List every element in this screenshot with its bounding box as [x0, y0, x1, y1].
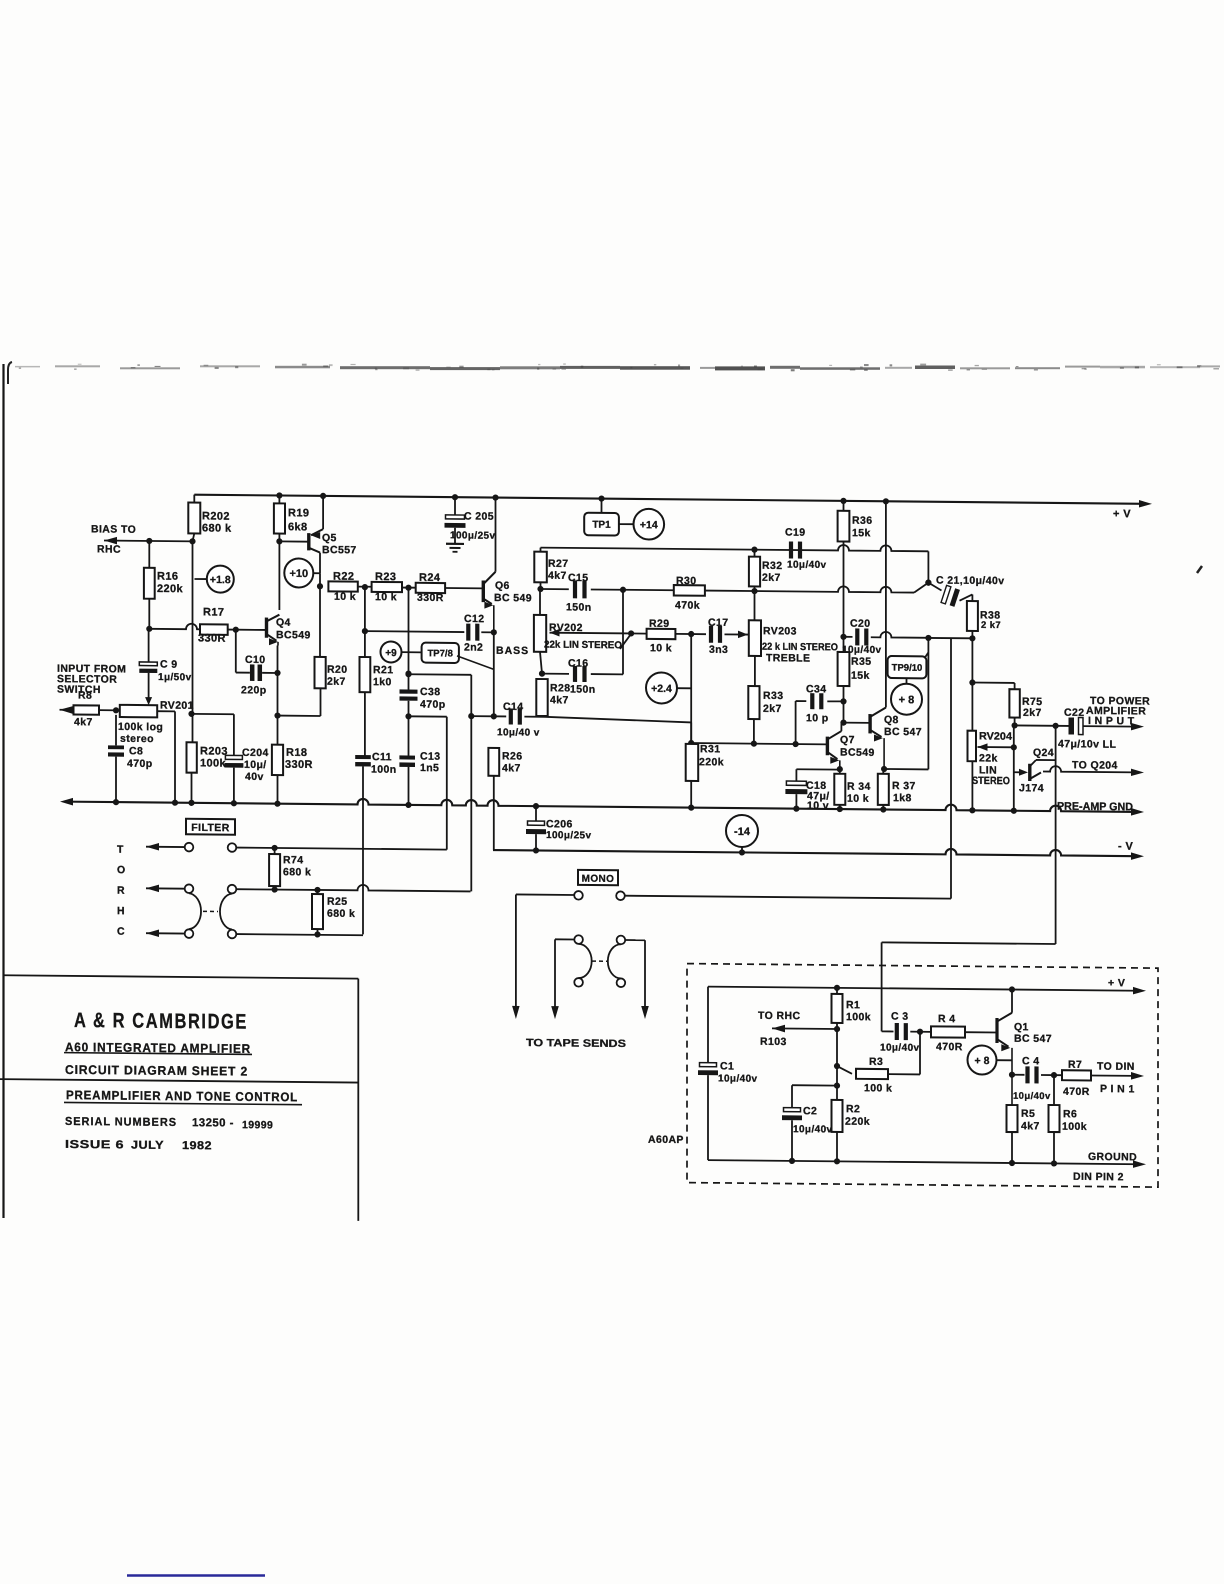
svg-text:C15: C15	[568, 572, 588, 584]
svg-text:+1.8: +1.8	[210, 574, 231, 586]
svg-text:TO RHC: TO RHC	[758, 1010, 800, 1022]
svg-text:100k: 100k	[200, 757, 227, 769]
svg-text:1k0: 1k0	[373, 676, 392, 688]
svg-text:330R: 330R	[198, 632, 226, 644]
svg-text:220p: 220p	[241, 684, 267, 696]
svg-text:C20: C20	[850, 618, 870, 630]
svg-text:C13: C13	[420, 751, 440, 763]
svg-text:100n: 100n	[371, 764, 397, 776]
svg-text:10μ/40v: 10μ/40v	[718, 1073, 758, 1084]
svg-text:100μ/25v: 100μ/25v	[546, 830, 592, 841]
svg-text:C16: C16	[568, 657, 588, 669]
svg-text:100k: 100k	[1062, 1121, 1087, 1133]
svg-text:T: T	[117, 844, 124, 856]
svg-text:+9: +9	[385, 648, 397, 659]
svg-text:CIRCUIT DIAGRAM SHEET 2: CIRCUIT DIAGRAM SHEET 2	[65, 1063, 248, 1079]
svg-text:22k: 22k	[979, 752, 998, 764]
svg-text:R22: R22	[333, 571, 354, 583]
svg-text:10 p: 10 p	[806, 712, 829, 724]
svg-text:R6: R6	[1063, 1108, 1077, 1120]
svg-text:MONO: MONO	[582, 874, 615, 885]
svg-text:RHC: RHC	[97, 543, 121, 555]
svg-text:10 k: 10 k	[650, 642, 672, 654]
svg-text:FILTER: FILTER	[191, 822, 229, 834]
svg-text:150n: 150n	[566, 601, 592, 613]
svg-text:R23: R23	[375, 571, 396, 583]
svg-text:10μ/40v: 10μ/40v	[793, 1124, 833, 1135]
svg-text:RV201: RV201	[160, 700, 194, 712]
svg-text:Q5: Q5	[322, 532, 337, 544]
svg-text:R27: R27	[548, 558, 568, 570]
svg-text:680 k: 680 k	[202, 522, 232, 534]
svg-text:BC549: BC549	[840, 747, 875, 759]
svg-text:22k LIN STEREO: 22k LIN STEREO	[544, 640, 622, 652]
svg-text:C 4: C 4	[1022, 1055, 1040, 1067]
svg-text:H: H	[117, 905, 125, 917]
svg-text:C: C	[117, 926, 125, 938]
svg-text:R33: R33	[763, 690, 783, 702]
svg-text:R28: R28	[550, 682, 570, 694]
svg-text:C34: C34	[806, 683, 826, 695]
svg-text:13250 -: 13250 -	[192, 1117, 234, 1129]
svg-text:- V: - V	[1118, 841, 1134, 853]
svg-text:2n2: 2n2	[464, 641, 483, 653]
svg-text:R: R	[117, 885, 125, 897]
svg-text:C 9: C 9	[160, 659, 178, 671]
svg-text:TP7/8: TP7/8	[428, 648, 453, 659]
svg-text:330R: 330R	[285, 759, 313, 771]
svg-text:P I N 1: P I N 1	[1100, 1083, 1135, 1095]
svg-text:100 k: 100 k	[864, 1082, 892, 1094]
svg-text:BC549: BC549	[276, 629, 311, 641]
svg-text:220k: 220k	[699, 756, 724, 768]
svg-text:STEREO: STEREO	[972, 775, 1010, 787]
svg-text:2k7: 2k7	[762, 572, 781, 584]
svg-text:100μ/25v: 100μ/25v	[450, 530, 496, 541]
svg-text:PREAMPLIFIER AND TONE CONTR: PREAMPLIFIER AND TONE CONTROL	[66, 1088, 298, 1104]
svg-text:R31: R31	[700, 743, 720, 755]
svg-text:+14: +14	[640, 519, 658, 531]
svg-text:C206: C206	[546, 818, 573, 830]
svg-text:TP9/10: TP9/10	[892, 663, 923, 674]
svg-text:BIAS TO: BIAS TO	[91, 523, 136, 535]
svg-text:C22: C22	[1064, 707, 1084, 719]
svg-text:A & R CAMBRIDGE: A & R CAMBRIDGE	[74, 1009, 248, 1034]
svg-text:Q4: Q4	[276, 617, 291, 629]
svg-text:1μ/50v: 1μ/50v	[158, 672, 192, 683]
svg-text:R3: R3	[869, 1056, 883, 1068]
svg-text:R29: R29	[649, 618, 669, 630]
svg-text:R19: R19	[288, 507, 309, 519]
svg-text:680 k: 680 k	[327, 908, 355, 920]
svg-text:TO DIN: TO DIN	[1097, 1061, 1135, 1073]
svg-text:R7: R7	[1068, 1059, 1082, 1071]
svg-text:R32: R32	[762, 560, 782, 572]
svg-text:+ V: + V	[1113, 508, 1131, 520]
svg-text:RV203: RV203	[763, 625, 797, 637]
svg-text:10μ/40 v: 10μ/40 v	[497, 727, 540, 738]
svg-text:C1: C1	[720, 1060, 734, 1072]
svg-text:R 37: R 37	[892, 780, 916, 792]
svg-text:C38: C38	[420, 686, 440, 698]
svg-text:40v: 40v	[245, 771, 264, 783]
svg-text:47μ/10v LL: 47μ/10v LL	[1058, 738, 1116, 751]
svg-text:O: O	[117, 864, 126, 876]
svg-text:2k7: 2k7	[1023, 707, 1042, 719]
svg-text:4k7: 4k7	[550, 694, 569, 706]
svg-text:R74: R74	[283, 854, 303, 866]
svg-text:10μ/40v: 10μ/40v	[787, 560, 827, 571]
svg-text:J174: J174	[1019, 782, 1044, 794]
svg-text:R 34: R 34	[847, 781, 871, 793]
svg-text:C 205: C 205	[464, 510, 494, 522]
svg-text:R30: R30	[676, 575, 696, 587]
svg-text:680 k: 680 k	[283, 866, 311, 878]
svg-text:100k log: 100k log	[118, 721, 163, 733]
svg-text:10μ/: 10μ/	[244, 759, 267, 771]
svg-text:10μ/40v: 10μ/40v	[842, 645, 882, 656]
svg-text:+ V: + V	[1108, 977, 1125, 989]
svg-text:+ 8: + 8	[975, 1055, 990, 1067]
svg-text:C14: C14	[503, 701, 523, 713]
svg-text:+ 8: + 8	[899, 694, 915, 706]
svg-text:2k7: 2k7	[763, 703, 782, 715]
svg-text:Q24: Q24	[1033, 747, 1054, 759]
svg-text:4k7: 4k7	[502, 762, 521, 774]
svg-text:R25: R25	[327, 896, 347, 908]
svg-text:C204: C204	[242, 747, 269, 759]
svg-text:1n5: 1n5	[420, 762, 439, 774]
svg-text:100k: 100k	[846, 1011, 871, 1023]
svg-text:10 v: 10 v	[807, 800, 829, 812]
svg-text:R16: R16	[157, 571, 178, 583]
svg-text:R18: R18	[286, 747, 307, 759]
svg-text:+2.4: +2.4	[651, 683, 672, 695]
svg-text:470R: 470R	[936, 1041, 963, 1053]
svg-text:Q6: Q6	[495, 580, 510, 592]
svg-text:470p: 470p	[127, 758, 153, 770]
svg-text:TREBLE: TREBLE	[766, 652, 810, 664]
svg-text:10 k: 10 k	[375, 591, 397, 603]
svg-text:BC 549: BC 549	[494, 592, 532, 604]
svg-text:R26: R26	[502, 750, 522, 762]
svg-text:C 21,10μ/40v: C 21,10μ/40v	[936, 574, 1004, 587]
svg-text:R1: R1	[846, 999, 860, 1011]
svg-text:1982: 1982	[182, 1140, 212, 1152]
svg-text:220k: 220k	[157, 583, 184, 595]
svg-text:470p: 470p	[420, 699, 446, 711]
svg-text:4k7: 4k7	[548, 570, 567, 582]
svg-text:TO TAPE SENDS: TO TAPE SENDS	[526, 1037, 626, 1050]
svg-text:2k7: 2k7	[327, 676, 346, 688]
svg-text:BC 547: BC 547	[1014, 1033, 1052, 1045]
svg-text:1k8: 1k8	[893, 792, 912, 804]
svg-text:C10: C10	[245, 654, 265, 666]
svg-text:R2: R2	[846, 1103, 860, 1115]
svg-text:R203: R203	[200, 745, 228, 757]
svg-text:TO Q204: TO Q204	[1072, 759, 1118, 771]
svg-text:BASS: BASS	[496, 645, 529, 657]
svg-text:470R: 470R	[1063, 1086, 1090, 1098]
svg-text:Q8: Q8	[884, 714, 899, 726]
svg-text:Q7: Q7	[840, 734, 855, 746]
svg-text:R24: R24	[419, 572, 441, 584]
svg-text:BC557: BC557	[322, 544, 357, 556]
svg-text:C11: C11	[372, 751, 392, 763]
svg-text:A60AP: A60AP	[648, 1134, 684, 1146]
svg-text:-14: -14	[734, 826, 751, 838]
svg-text:Q1: Q1	[1014, 1021, 1029, 1033]
svg-text:3n3: 3n3	[709, 644, 728, 656]
svg-text:R21: R21	[373, 664, 393, 676]
svg-text:GROUND: GROUND	[1088, 1151, 1137, 1163]
svg-text:15k: 15k	[852, 527, 871, 539]
svg-text:R5: R5	[1021, 1108, 1035, 1120]
svg-text:10μ/40v: 10μ/40v	[1013, 1091, 1051, 1102]
svg-text:+10: +10	[289, 568, 308, 580]
svg-text:C19: C19	[785, 527, 805, 539]
svg-text:ISSUE 6: ISSUE 6	[65, 1139, 124, 1152]
svg-text:I N P U T: I N P U T	[1088, 715, 1135, 727]
svg-text:JULY: JULY	[131, 1140, 164, 1152]
svg-text:C12: C12	[464, 613, 484, 625]
svg-text:RV204: RV204	[979, 730, 1012, 742]
svg-text:R20: R20	[327, 664, 347, 676]
svg-text:R103: R103	[760, 1036, 787, 1048]
svg-text:10μ/40v: 10μ/40v	[880, 1042, 920, 1053]
svg-text:4k7: 4k7	[74, 716, 93, 728]
svg-text:19999: 19999	[242, 1119, 273, 1131]
svg-text:SWITCH: SWITCH	[57, 684, 101, 696]
svg-text:R 4: R 4	[938, 1013, 956, 1025]
svg-text:R35: R35	[851, 656, 871, 668]
svg-text:C 3: C 3	[891, 1011, 909, 1023]
svg-text:220k: 220k	[845, 1116, 870, 1128]
svg-text:TP1: TP1	[592, 520, 611, 531]
svg-text:330R: 330R	[417, 592, 444, 604]
svg-text:SERIAL NUMBERS: SERIAL NUMBERS	[65, 1116, 177, 1129]
svg-text:15k: 15k	[851, 670, 870, 682]
svg-text:R36: R36	[852, 515, 872, 527]
svg-text:2 k7: 2 k7	[981, 620, 1001, 631]
svg-text:4k7: 4k7	[1021, 1120, 1040, 1132]
svg-text:C17: C17	[708, 617, 728, 629]
svg-text:DIN PIN 2: DIN PIN 2	[1073, 1171, 1124, 1183]
svg-text:R202: R202	[202, 510, 230, 522]
svg-text:stereo: stereo	[120, 733, 154, 745]
svg-text:BC 547: BC 547	[884, 726, 922, 738]
svg-text:R17: R17	[203, 606, 224, 618]
svg-text:470k: 470k	[675, 599, 700, 611]
svg-text:10 k: 10 k	[334, 591, 356, 603]
svg-text:6k8: 6k8	[288, 521, 308, 533]
svg-text:C2: C2	[803, 1105, 817, 1117]
svg-text:PRE-AMP GND: PRE-AMP GND	[1057, 801, 1133, 814]
svg-text:150n: 150n	[570, 683, 596, 695]
svg-text:C8: C8	[129, 745, 143, 757]
svg-text:10 k: 10 k	[847, 793, 869, 805]
